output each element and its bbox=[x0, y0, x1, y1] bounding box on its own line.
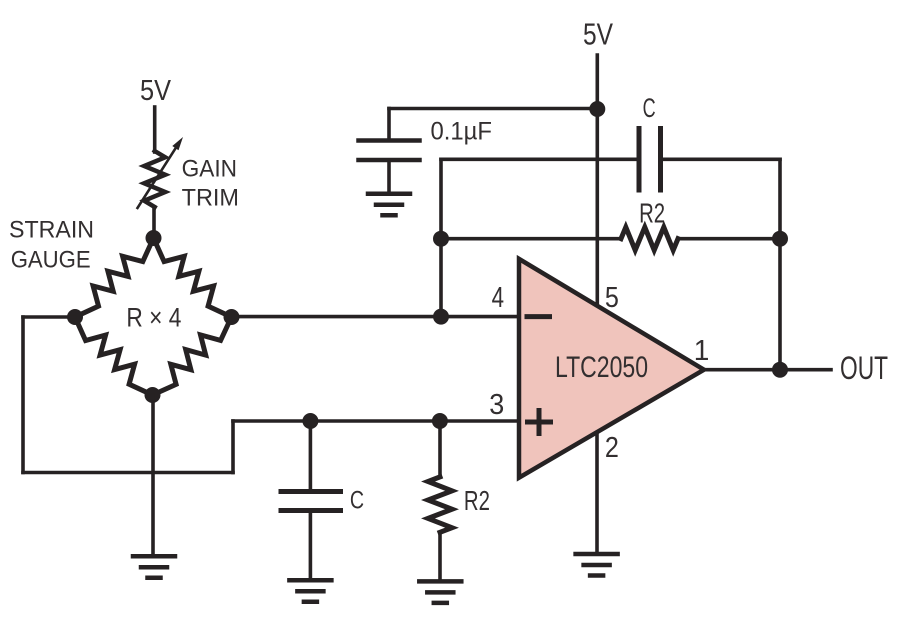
svg-text:OUT: OUT bbox=[840, 350, 888, 386]
capacitor C input filter bbox=[281, 421, 341, 580]
wire 5V to gain trim bbox=[153, 107, 157, 152]
resistor bridge arm bottom-left bbox=[75, 317, 153, 395]
wire output pin 1 to OUT bbox=[704, 368, 831, 372]
node bridge left junction bbox=[67, 309, 83, 325]
wire pin 2 to ground bbox=[595, 432, 599, 553]
resistor bridge arm top-right bbox=[154, 238, 232, 317]
svg-text:5V: 5V bbox=[583, 17, 613, 52]
svg-text:1: 1 bbox=[694, 335, 710, 367]
ground input filter cap bbox=[289, 580, 331, 602]
op-amp U1 LTC2050 bbox=[519, 259, 704, 478]
node output junction bbox=[772, 362, 788, 378]
svg-text:R × 4: R × 4 bbox=[126, 302, 181, 332]
svg-text:3: 3 bbox=[489, 389, 504, 421]
svg-text:C: C bbox=[350, 487, 364, 515]
svg-text:5: 5 bbox=[605, 282, 619, 314]
resistor gain trim (variable) bbox=[144, 151, 165, 207]
wire right feedback vertical bbox=[778, 159, 782, 369]
svg-text:C: C bbox=[643, 93, 656, 123]
svg-text:0.1µF: 0.1µF bbox=[431, 118, 493, 146]
wire trim to bridge top bbox=[152, 207, 156, 238]
svg-text:STRAIN: STRAIN bbox=[9, 216, 94, 243]
svg-text:4: 4 bbox=[492, 282, 504, 314]
capacitor C feedback bbox=[441, 129, 780, 191]
wire bridge left node to left edge bbox=[23, 315, 75, 319]
ground bypass cap bbox=[368, 194, 410, 216]
wire left feedback vertical bbox=[439, 159, 443, 316]
wire bottom horizontal to plus branch bbox=[23, 471, 233, 475]
op-amp plus symbol bbox=[528, 411, 551, 434]
wire plus rail to pin 3 bbox=[233, 419, 519, 423]
wire 5V junction to bypass cap bbox=[389, 107, 597, 111]
node 5V junction bbox=[589, 101, 605, 117]
node feedback left on minus rail bbox=[433, 309, 449, 325]
svg-text:GAUGE: GAUGE bbox=[11, 247, 91, 274]
wire up to plus rail bbox=[231, 421, 235, 473]
node bridge bottom junction bbox=[145, 387, 161, 403]
svg-text:LTC2050: LTC2050 bbox=[555, 351, 648, 384]
arrow of gain trim bbox=[138, 137, 184, 208]
svg-text:GAIN: GAIN bbox=[182, 156, 237, 183]
ground bridge bottom bbox=[133, 556, 175, 578]
node bridge top junction bbox=[146, 230, 162, 246]
wire 5V top vertical to pin 5 bbox=[595, 55, 599, 306]
node plus rail R2 junction bbox=[432, 413, 448, 429]
resistor R2 feedback bbox=[441, 227, 780, 250]
node feedback right on R2 line bbox=[772, 231, 788, 247]
svg-text:5V: 5V bbox=[140, 75, 172, 107]
wire minus rail bridge right node to pin 4 bbox=[232, 315, 520, 319]
wire left edge down bbox=[21, 317, 25, 473]
svg-text:R2: R2 bbox=[464, 485, 490, 516]
svg-text:2: 2 bbox=[605, 432, 619, 464]
resistor R2 input bbox=[428, 421, 452, 581]
node bridge right junction bbox=[224, 309, 240, 325]
resistor bridge arm top-left bbox=[75, 238, 154, 317]
resistor bridge arm bottom-right bbox=[153, 317, 232, 395]
op-amp minus symbol bbox=[527, 314, 550, 319]
ground pin 2 bbox=[576, 554, 618, 576]
capacitor 0.1uF bbox=[359, 109, 420, 193]
ground input R2 bbox=[419, 581, 461, 603]
svg-text:TRIM: TRIM bbox=[182, 185, 239, 212]
node plus rail C junction bbox=[302, 413, 318, 429]
node feedback left on R2 line bbox=[433, 231, 449, 247]
wire bridge bottom to ground bbox=[151, 395, 155, 555]
svg-text:R2: R2 bbox=[639, 197, 665, 228]
